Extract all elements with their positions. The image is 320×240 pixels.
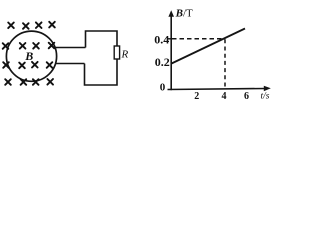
- svg-text:B: B: [24, 49, 33, 63]
- graph x-axis: [168, 89, 267, 90]
- svg-text:4: 4: [222, 91, 227, 102]
- field region circle (coil boundary): [6, 31, 56, 81]
- row 3: [3, 62, 9, 68]
- y tick 0.4: [168, 38, 171, 40]
- wire loop upper-left vertical and top: [86, 31, 118, 48]
- svg-text:2: 2: [194, 91, 199, 102]
- wire loop lower-left vertical and bottom: [85, 59, 118, 85]
- svg-text:t/s: t/s: [261, 92, 270, 102]
- row 1: [8, 23, 14, 29]
- svg-text:0.4: 0.4: [154, 32, 169, 46]
- svg-text:6: 6: [244, 91, 249, 102]
- wire lower lead: [56, 63, 85, 65]
- graph y-axis: [170, 13, 172, 90]
- svg-text:0: 0: [160, 82, 166, 94]
- row 4: [5, 79, 11, 85]
- dashed level 0.4: [172, 38, 225, 40]
- svg-text:B/T: B/T: [175, 8, 193, 20]
- row 2: [3, 43, 9, 49]
- field B cross marks (flux into page): [3, 22, 55, 85]
- B(t) line: [172, 29, 246, 64]
- svg-text:0.2: 0.2: [155, 55, 170, 69]
- svg-text:R: R: [121, 49, 129, 61]
- wire upper lead: [55, 47, 86, 49]
- dashed drop to t axis: [224, 39, 226, 89]
- resistor R body: [114, 46, 119, 59]
